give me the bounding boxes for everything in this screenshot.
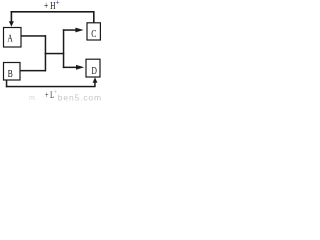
svg-text:m: m [29,95,35,102]
box D [86,59,100,77]
label +L' bottom [45,90,58,100]
svg-text:D: D [92,66,98,77]
label +H+ [44,0,60,12]
wire mid vertical join [45,35,47,71]
wire arrow to D [63,67,80,69]
wire B bottom vertical [6,80,8,87]
wire top horizontal [11,11,95,13]
box B [4,63,21,81]
arrowhead into A top [9,21,14,27]
wire right vertical down to C [93,11,95,23]
svg-text:B: B [8,69,13,80]
wire arrow to C [63,29,80,31]
svg-text:+ H: + H [44,1,56,12]
box C [87,23,100,40]
svg-text:+: + [56,0,60,6]
arrowhead into D bottom [93,77,98,83]
wire from B right [20,70,46,72]
wire from A right [21,35,46,37]
wire bottom horizontal [6,86,96,88]
svg-text:ben5.com: ben5.com [58,93,102,103]
svg-text:A: A [7,33,13,44]
wire branch vertical [63,29,65,68]
svg-text:C: C [91,29,96,40]
arrowhead into C [75,28,83,33]
box A [4,28,22,48]
wire left vertical down to A [11,11,13,22]
wire mid horizontal [45,53,64,55]
arrowhead into D [76,65,84,70]
wire up into D [94,82,96,87]
